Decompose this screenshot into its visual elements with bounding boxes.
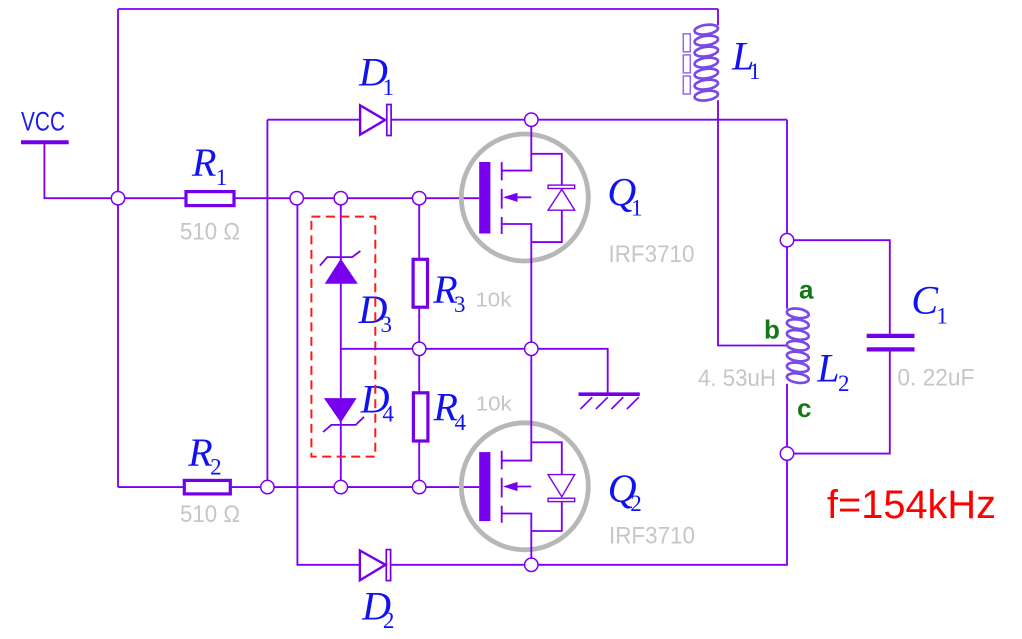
svg-text:R: R xyxy=(187,430,212,475)
label IRF3710 Q1 xyxy=(609,241,695,268)
node tank top xyxy=(780,234,793,247)
wire node to L2 a xyxy=(786,240,788,309)
svg-text:2: 2 xyxy=(210,455,222,480)
resistor R4 xyxy=(413,393,428,441)
svg-text:b: b xyxy=(764,315,780,345)
label R4 xyxy=(433,384,467,434)
node Q2 source xyxy=(525,558,538,571)
label 10k R3 xyxy=(475,289,512,311)
node label c xyxy=(797,393,811,423)
resistor R2 xyxy=(184,480,230,494)
svg-text:1: 1 xyxy=(749,59,761,84)
transistor Q2 xyxy=(461,349,588,565)
label D2 xyxy=(361,584,394,634)
svg-text:2: 2 xyxy=(630,491,642,516)
node gate1 rail 1 xyxy=(290,192,303,205)
label D3 xyxy=(358,287,393,337)
node Q1 drain xyxy=(525,113,538,126)
label 0.22uF xyxy=(897,365,974,392)
diode D1 xyxy=(360,105,391,136)
wire R3 column xyxy=(418,198,420,487)
wire D1 rail xyxy=(267,119,787,121)
node R3 R4 xyxy=(413,342,426,355)
svg-text:IRF3710: IRF3710 xyxy=(609,241,695,268)
wire L1 to L2 tap b xyxy=(718,100,787,345)
svg-text:4: 4 xyxy=(382,402,394,427)
svg-text:4: 4 xyxy=(455,410,467,435)
svg-text:510 Ω: 510 Ω xyxy=(180,218,240,245)
label C1 xyxy=(911,278,948,329)
label D4 xyxy=(360,376,395,426)
wire R2 rail xyxy=(118,486,479,488)
label Q2 xyxy=(608,466,642,516)
wire zener column xyxy=(340,198,342,487)
svg-text:3: 3 xyxy=(454,292,466,317)
svg-text:1: 1 xyxy=(383,75,395,100)
wire C1 top branch xyxy=(787,240,890,334)
label D1 xyxy=(358,49,394,100)
node tank bottom xyxy=(780,447,793,460)
svg-text:2: 2 xyxy=(838,371,850,396)
node label b xyxy=(764,315,780,345)
svg-text:R: R xyxy=(191,140,216,185)
node Q1 source xyxy=(525,342,538,355)
label VCC xyxy=(21,107,65,137)
diode D2 xyxy=(360,550,391,581)
wire D1 anode drop xyxy=(266,120,268,487)
label IRF3710 Q2 xyxy=(609,523,695,550)
svg-text:4. 53uH: 4. 53uH xyxy=(698,365,776,392)
inductor L1 xyxy=(683,9,718,102)
resistor R1 xyxy=(186,192,234,206)
ground xyxy=(579,394,640,409)
label 510 ohm R2 xyxy=(180,501,240,528)
node gate1 rail 2 xyxy=(334,192,347,205)
dashed protection box xyxy=(311,217,375,457)
label 510 ohm R1 xyxy=(180,218,240,245)
label L1 xyxy=(731,34,761,84)
label Q1 xyxy=(607,169,642,220)
svg-text:2: 2 xyxy=(383,608,395,633)
svg-text:VCC: VCC xyxy=(21,107,65,137)
label frequency xyxy=(827,483,996,527)
label R1 xyxy=(191,140,227,190)
label R3 xyxy=(432,267,465,317)
zener D3 xyxy=(320,251,361,284)
node gate2 rail 3 xyxy=(413,480,426,493)
svg-text:f=154kHz: f=154kHz xyxy=(827,483,996,527)
svg-text:0. 22uF: 0. 22uF xyxy=(897,365,974,392)
wire L2 bottom xyxy=(786,384,788,454)
svg-text:c: c xyxy=(797,393,811,423)
wire left VCC vertical xyxy=(117,9,119,487)
label R2 xyxy=(187,430,221,480)
wire top rail xyxy=(118,8,718,10)
label 10k R4 xyxy=(476,394,513,416)
wire middle source rail xyxy=(341,349,608,393)
transistor Q1 xyxy=(461,120,588,349)
svg-text:1: 1 xyxy=(936,304,948,329)
resistor R3 xyxy=(413,259,427,307)
wire R1 rail xyxy=(118,197,479,199)
svg-text:a: a xyxy=(799,275,814,305)
node gate2 rail 2 xyxy=(334,480,347,493)
svg-text:1: 1 xyxy=(216,165,228,190)
wire D2 gate drop xyxy=(297,198,787,565)
node label a xyxy=(799,275,814,305)
svg-text:C: C xyxy=(911,278,939,323)
svg-text:10k: 10k xyxy=(476,394,513,416)
node gate2 rail 1 xyxy=(261,480,274,493)
svg-text:510 Ω: 510 Ω xyxy=(180,501,240,528)
label 4.53uH xyxy=(698,365,776,392)
wire top right drop xyxy=(786,120,788,241)
svg-text:L: L xyxy=(816,346,839,391)
svg-text:IRF3710: IRF3710 xyxy=(609,523,695,550)
node VCC junction xyxy=(111,192,124,205)
wire C1 bottom branch xyxy=(787,351,890,453)
svg-text:1: 1 xyxy=(631,195,643,220)
svg-text:10k: 10k xyxy=(475,289,512,311)
inductor L2 xyxy=(786,307,809,384)
svg-text:3: 3 xyxy=(381,312,393,337)
power flag VCC xyxy=(21,142,118,198)
capacitor C1 xyxy=(867,336,915,350)
zener D4 xyxy=(323,398,364,432)
node gate1 rail 3 xyxy=(413,192,426,205)
label L2 xyxy=(816,346,849,396)
